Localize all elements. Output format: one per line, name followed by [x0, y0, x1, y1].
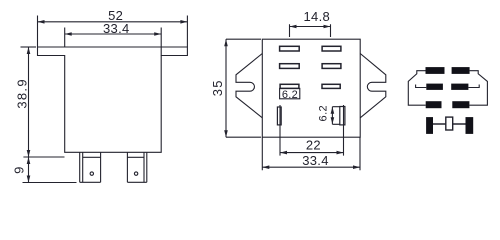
contact terminal C2 (bottom right, filled): [452, 101, 469, 108]
dimension 9 arrows: [27, 157, 31, 183]
svg-text:38.9: 38.9: [15, 78, 30, 109]
pin 1 hole: [90, 172, 93, 175]
terminal pin 2 (right blade): [127, 152, 146, 182]
dimension 52 arrows: [38, 20, 188, 24]
relay base outline (bottom view): [262, 39, 360, 137]
dimension 38.9 top extension line: [21, 46, 37, 48]
dimension 33.4 line (middle view): [262, 166, 360, 168]
dimension 33.4 arrows (left view): [65, 32, 162, 36]
coil pin slot right (vertical): [340, 107, 345, 125]
dimension 33.4 extension lines (left view): [65, 28, 162, 56]
coil body (open rectangle): [446, 117, 453, 130]
svg-text:33.4: 33.4: [302, 153, 329, 168]
dimension 35 line: [225, 39, 227, 137]
coil terminal left (filled bar): [426, 117, 433, 134]
dimension 9 line: [28, 157, 30, 183]
contact slot row 2 left: [280, 64, 300, 69]
contact slot row 2 right: [322, 64, 341, 69]
dimension 35 arrows: [224, 39, 228, 137]
coil terminal right (filled bar): [466, 117, 474, 134]
dimension 52 line: [38, 21, 188, 23]
svg-text:33.4: 33.4: [103, 21, 130, 36]
svg-text:6.2: 6.2: [282, 89, 298, 101]
contact terminal B1 (middle left, filled): [426, 84, 443, 90]
terminal pin 1 (left blade): [80, 152, 101, 182]
movable contact hook left: [416, 85, 427, 88]
dimension 14.8 arrows: [290, 25, 331, 29]
contact terminal C1 (bottom left, filled): [426, 101, 442, 108]
dimension 9 extension lines: [23, 157, 77, 183]
dimension 38.9 line: [28, 47, 30, 157]
svg-text:22: 22: [306, 137, 321, 152]
dimension 22 line: [280, 152, 344, 154]
dimension 14.8 extension lines: [290, 24, 331, 37]
relay body with top mounting flange (side view outline): [38, 47, 188, 152]
contact terminal B2 (middle right, filled): [451, 84, 468, 90]
dimension 33.4 extension lines (middle view): [262, 137, 360, 170]
dimension 52 extension lines: [38, 16, 188, 48]
wiring outline right side: [469, 71, 487, 106]
coil pin slot left (vertical): [277, 107, 281, 125]
movable contact hook right: [468, 85, 479, 88]
contact terminal A1 (top left, filled): [426, 67, 445, 74]
dimension 22 extension lines: [280, 105, 344, 156]
svg-text:9: 9: [11, 167, 26, 174]
contact slot row 1 right: [322, 46, 341, 51]
svg-text:35: 35: [210, 79, 225, 96]
dimension 14.8 line: [290, 26, 331, 28]
left mounting ear with open slot: [236, 54, 262, 118]
label box for slot width 6.2: [280, 88, 300, 98]
dimension 38.9 arrows: [27, 47, 31, 157]
wiring outline left side: [408, 71, 425, 106]
contact slot row 3 left: [280, 84, 299, 88]
dimension 33.4 arrows (middle view): [262, 165, 360, 169]
dimension 6.2 line: [331, 107, 333, 125]
svg-text:6.2: 6.2: [318, 105, 330, 122]
coil connecting wire: [433, 123, 466, 125]
contact slot row 3 right: [322, 84, 340, 88]
pin 2 hole: [134, 172, 137, 175]
dimension 22 arrows: [280, 151, 344, 155]
svg-text:14.8: 14.8: [304, 9, 331, 24]
right mounting ear with open slot: [360, 54, 386, 118]
dimension 35 extension lines: [226, 39, 261, 137]
contact slot row 1 left: [280, 46, 300, 51]
dimension 6.2 (vertical slot height) extension lines: [332, 107, 339, 125]
contact terminal A2 (top right, filled): [452, 67, 470, 74]
dimension 33.4 line (left view): [65, 33, 162, 35]
dimension 6.2 arrows: [331, 107, 335, 125]
